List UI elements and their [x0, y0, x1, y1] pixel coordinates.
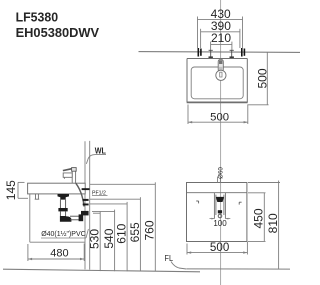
top view outer rect	[187, 59, 248, 103]
wall bracket right	[242, 48, 245, 57]
svg-text:540: 540	[102, 228, 116, 248]
drain channel walls	[214, 193, 225, 219]
drain wall connector blob	[81, 211, 89, 216]
pipe wall fitting nut	[79, 214, 84, 221]
svg-text:100: 100	[213, 219, 227, 228]
floor line left	[3, 269, 200, 272]
svg-text:500: 500	[210, 241, 229, 254]
svg-text:655: 655	[128, 222, 142, 242]
dim 480	[28, 244, 84, 262]
dim 145	[18, 182, 28, 198]
drain tailpiece	[60, 200, 65, 208]
drain stub above counter	[218, 177, 221, 183]
horizontal trap pipe	[70, 216, 80, 220]
dim 530	[93, 211, 100, 271]
elevation outer rect	[187, 183, 247, 242]
wall bracket left	[198, 48, 201, 57]
supply hose from faucet	[76, 183, 84, 206]
svg-text:610: 610	[115, 223, 129, 243]
faucet side view: body	[72, 171, 75, 183]
floor line right	[187, 268, 291, 270]
svg-text:EH05380DWV: EH05380DWV	[16, 25, 100, 40]
svg-text:760: 760	[143, 220, 157, 240]
screw mark left	[196, 201, 198, 203]
dim 100 arrows	[210, 218, 231, 220]
supply stub PF1/2	[82, 188, 90, 190]
counter slab (side view)	[28, 183, 86, 194]
FL leader	[171, 262, 186, 270]
faucet (top view) body circle	[216, 70, 226, 80]
svg-text:530: 530	[88, 229, 102, 249]
cabinet side box	[30, 194, 85, 242]
svg-text:480: 480	[50, 247, 68, 259]
dim 500 bottom (top view)	[188, 105, 248, 125]
dim 760	[90, 182, 155, 271]
dim 500 right (top view)	[247, 52, 268, 105]
drain trap small block	[218, 210, 222, 213]
tailpiece nut	[58, 208, 67, 211]
faucet hole bolt right	[230, 50, 234, 58]
svg-text:500: 500	[256, 68, 270, 88]
title model numbers	[16, 10, 100, 41]
drain small circle	[218, 214, 222, 218]
dim 390	[201, 29, 240, 48]
dim 810	[248, 181, 280, 269]
elevation counter line	[187, 192, 247, 194]
faucet side view: spout	[63, 173, 72, 177]
screw mark right	[239, 202, 241, 204]
dim 655	[90, 197, 141, 271]
svg-text:500: 500	[210, 111, 229, 123]
supply valve nut lower	[83, 204, 89, 206]
faucet hole bolt left	[209, 50, 213, 58]
faucet circle notch	[220, 72, 222, 77]
svg-text:Ø60: Ø60	[218, 167, 225, 179]
tailpiece lower	[60, 211, 65, 216]
supply valve nut upper	[83, 199, 89, 201]
dim 430	[198, 17, 243, 49]
svg-text:210: 210	[211, 31, 231, 45]
dim 210	[211, 42, 232, 50]
trap elbow	[60, 216, 72, 222]
wall line (top view)	[139, 51, 301, 54]
WL leader	[86, 155, 106, 164]
svg-text:145: 145	[4, 180, 18, 200]
dim 500 elevation bottom	[187, 242, 247, 255]
svg-text:LF5380: LF5380	[16, 10, 59, 25]
centerline	[220, 0, 222, 285]
top view basin inner rect	[191, 67, 243, 99]
counter front foot	[35, 194, 40, 199]
dim 540	[92, 210, 115, 272]
svg-text:810: 810	[266, 213, 280, 233]
dim 450	[248, 193, 266, 242]
wall double line	[84, 141, 86, 269]
dim 610	[90, 202, 127, 271]
faucet (top view) spout pill	[218, 59, 223, 72]
svg-text:WL: WL	[95, 146, 106, 156]
faucet side view: cartridge cap	[72, 168, 77, 172]
svg-text:Ø40(1½")PVC: Ø40(1½")PVC	[41, 230, 86, 238]
drain funnel block	[216, 197, 224, 202]
drain flange under basin	[58, 194, 70, 200]
svg-text:FL: FL	[165, 253, 174, 263]
faucet side view: lever	[63, 168, 72, 172]
svg-text:450: 450	[251, 208, 265, 228]
